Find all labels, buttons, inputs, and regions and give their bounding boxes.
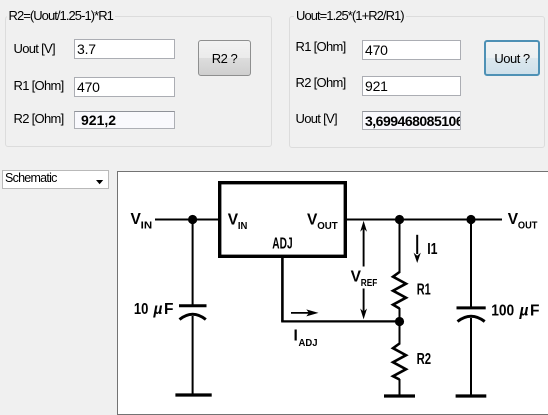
label C2 value 100 uF <box>491 303 539 320</box>
wire junction down to C1 <box>192 220 194 305</box>
combobox Schematic <box>2 170 109 189</box>
wire VOUT from regulator <box>347 219 502 221</box>
op-amp U1 regulator box <box>220 183 346 257</box>
label R1 [Ohm] <box>14 78 64 93</box>
svg-text:F: F <box>530 303 539 320</box>
svg-text:ADJ: ADJ <box>299 337 318 349</box>
wire ADJ pin down <box>281 258 284 322</box>
capacitor C2 100uF top plate <box>457 306 486 309</box>
label VIN external <box>131 211 153 232</box>
label C1 value 10 uF <box>134 301 174 318</box>
combobox arrow <box>96 180 104 185</box>
svg-text:OUT: OUT <box>518 220 538 232</box>
arrow I1 <box>414 235 421 263</box>
ground R2 <box>384 394 415 397</box>
arrow VREF upper segment <box>360 221 367 267</box>
svg-text:R1: R1 <box>417 281 431 298</box>
label IADJ <box>294 327 318 349</box>
svg-text:ADJ: ADJ <box>272 236 292 253</box>
wire node B to R2 <box>399 322 401 345</box>
svg-text:µ: µ <box>153 301 163 318</box>
capacitor C1 10uF curved plate <box>180 314 206 319</box>
label VIN pin inside box <box>228 212 248 233</box>
svg-text:I1: I1 <box>427 241 438 258</box>
input R2 = 921 right <box>362 76 461 96</box>
label Uout [V] right <box>296 111 337 126</box>
wire C2 to ground <box>470 318 472 395</box>
wire C2 down <box>470 220 472 307</box>
svg-text:I: I <box>294 327 298 344</box>
left group box R2 formula <box>5 16 272 147</box>
label R2 [Ohm] <box>14 111 64 126</box>
svg-text:µ: µ <box>519 303 529 320</box>
input R1 = 470 <box>74 77 175 97</box>
node C2 top junction <box>466 215 475 224</box>
button R2 ? <box>198 40 251 76</box>
right group box Uout formula <box>289 16 545 148</box>
result R2 = 921,2 <box>74 111 175 129</box>
label VOUT pin inside box <box>307 212 338 233</box>
button Uout ? focused <box>484 40 540 76</box>
capacitor C2 100uF curved plate <box>458 316 485 321</box>
node input junction <box>188 215 197 224</box>
wire down to R1 <box>399 220 401 274</box>
node B adj junction <box>395 317 404 326</box>
svg-text:10: 10 <box>134 301 149 318</box>
wire VIN to regulator <box>155 219 219 221</box>
label VREF <box>351 269 378 290</box>
label R1 [Ohm] right <box>296 39 346 54</box>
svg-text:R2: R2 <box>417 351 432 368</box>
result Uout = 3,699468085106 <box>362 111 461 130</box>
wire ADJ horizontal to node B <box>281 320 399 322</box>
wire C1 to ground <box>192 316 194 395</box>
node R1 top junction <box>395 215 404 224</box>
schematic panel <box>117 171 548 415</box>
input R1 = 470 right <box>362 40 461 60</box>
svg-text:IN: IN <box>141 220 153 232</box>
capacitor C1 10uF top plate <box>179 304 207 307</box>
svg-text:OUT: OUT <box>317 220 338 232</box>
label Uout [V] <box>14 41 55 56</box>
input Uout = 3.7 <box>74 39 175 59</box>
ground C2 <box>456 394 487 397</box>
svg-text:IN: IN <box>238 220 248 232</box>
arrow IADJ <box>291 309 319 316</box>
label R2 [Ohm] right <box>296 75 346 90</box>
arrow VREF lower segment <box>360 289 367 320</box>
resistor R1 zigzag <box>393 272 406 309</box>
resistor R2 zigzag <box>393 344 406 380</box>
wire R2 to ground <box>399 379 401 395</box>
label VOUT external <box>508 211 538 232</box>
svg-text:REF: REF <box>361 277 378 289</box>
ground C1 <box>175 393 211 396</box>
wire R1 to node B <box>399 308 401 322</box>
svg-text:100: 100 <box>491 303 514 320</box>
svg-text:F: F <box>164 301 173 318</box>
